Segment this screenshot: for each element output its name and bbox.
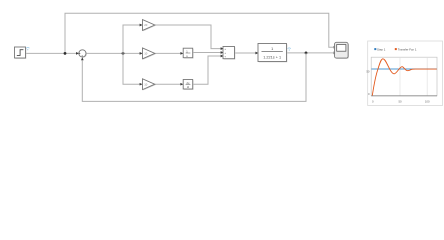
- arrowhead into sum: [76, 52, 79, 55]
- arrowhead into scope input 1: [334, 46, 337, 49]
- svg-text:1: 1: [271, 47, 273, 51]
- gridline t=100: [426, 57, 428, 96]
- plot area box: [371, 57, 437, 96]
- derivative block du/dt: [183, 80, 193, 90]
- wire gain D to derivative: [155, 83, 182, 85]
- svg-text:20: 20: [144, 23, 148, 27]
- wire add to transfer fcn: [235, 52, 257, 54]
- wire branch up to gain P: [123, 25, 141, 53]
- arrowhead into transfer fcn: [255, 52, 258, 55]
- arrowhead into gain P: [140, 24, 143, 27]
- svg-text:100: 100: [425, 99, 430, 103]
- arrowhead into integrator: [180, 52, 183, 55]
- feedback wire down and left to sum: [82, 53, 306, 102]
- wire top rail step to scope input 1: [65, 13, 333, 53]
- arrowhead into derivative: [180, 83, 183, 86]
- wire branch down to gain D: [123, 53, 141, 84]
- svg-text:50: 50: [366, 69, 370, 73]
- svg-text:10: 10: [144, 52, 148, 56]
- gain I block: [143, 48, 156, 60]
- svg-text:10: 10: [144, 82, 148, 86]
- wire integrator to add: [193, 52, 222, 54]
- integrator block 1/s: [183, 48, 193, 58]
- arrowhead add input 1: [221, 47, 224, 50]
- svg-text:Step 1: Step 1: [377, 47, 386, 51]
- arrowhead feedback into sum bottom: [81, 57, 84, 60]
- svg-text:1.221s + 1: 1.221s + 1: [263, 55, 281, 59]
- arrowhead into gain D: [140, 83, 143, 86]
- wire gain P to add (over and down): [155, 25, 222, 49]
- gridline t=50: [399, 57, 401, 96]
- add block: [223, 47, 235, 60]
- sum junction: [79, 50, 87, 58]
- junction dot B: [122, 52, 125, 55]
- scope block: [335, 42, 349, 59]
- wire derivative to add (over and up): [193, 56, 222, 84]
- arrowhead add input 3: [221, 55, 224, 58]
- logging badge on transfer fcn output: [288, 48, 291, 51]
- svg-text:Transfer Fcn 1: Transfer Fcn 1: [398, 47, 417, 51]
- blue step trace: [371, 68, 436, 70]
- arrowhead into gain I: [140, 52, 143, 55]
- wire transfer fcn to scope input 2: [287, 52, 334, 54]
- junction dot A: [64, 52, 67, 55]
- gain D block: [143, 79, 156, 91]
- svg-text:dt: dt: [187, 85, 189, 89]
- wire step to sum: [26, 52, 78, 54]
- arrowhead into scope input 2: [334, 52, 337, 55]
- junction dot C on feedback tap: [305, 52, 308, 55]
- legend marker Transfer Fcn 1: [395, 48, 397, 50]
- orange response trace: [372, 59, 437, 96]
- transfer fcn block 1/(1.221s+1): [258, 44, 287, 63]
- wire gain I to integrator: [155, 52, 182, 54]
- step source block Step: [15, 47, 27, 59]
- arrowhead add input 2: [221, 51, 224, 54]
- wire sum to gains junction: [86, 52, 142, 54]
- scope preview panel: [368, 41, 443, 106]
- legend marker Step 1: [374, 48, 376, 50]
- plot bottom axis: [371, 95, 437, 97]
- gain P block: [143, 20, 156, 32]
- logging badge on step output: [26, 48, 29, 51]
- svg-text:50: 50: [398, 99, 402, 103]
